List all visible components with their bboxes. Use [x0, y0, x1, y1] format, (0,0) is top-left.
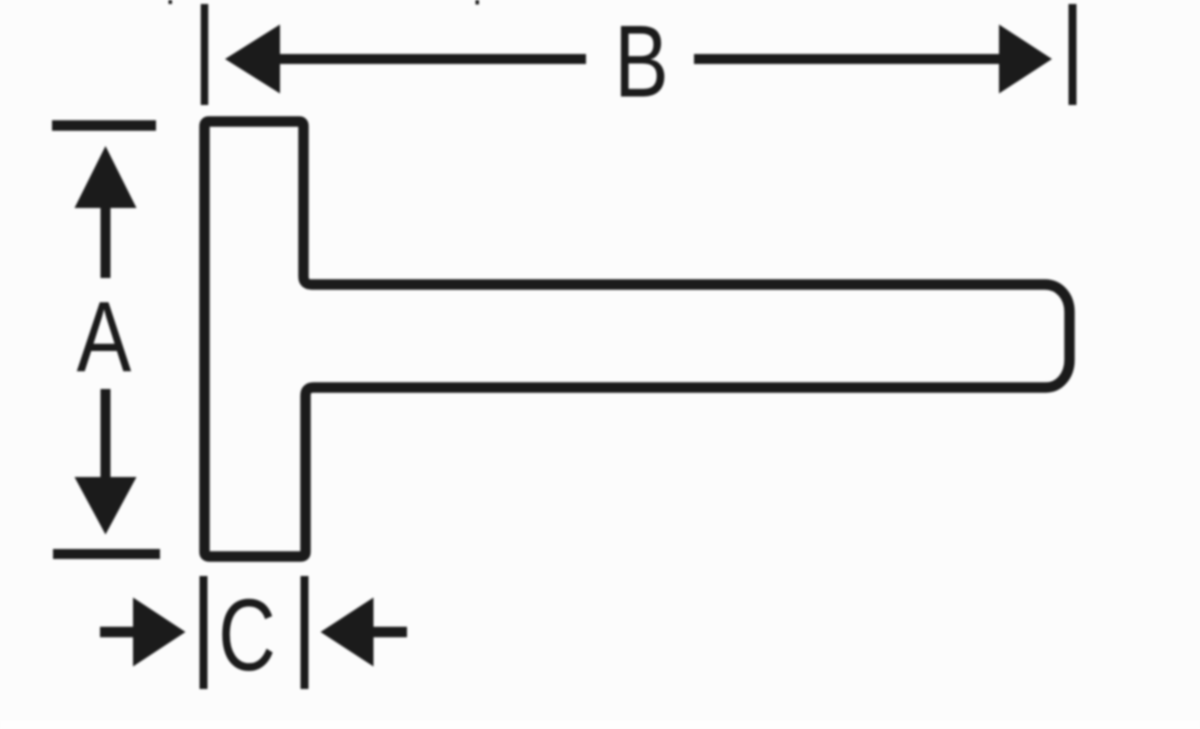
dimension A: up arrowhead: [75, 146, 137, 208]
dimension C: right shaft: [371, 627, 407, 638]
dimension C: right extension line: [301, 576, 309, 689]
dimension B: right arrowhead: [999, 25, 1052, 94]
bottom lighter strip: [0, 720, 1200, 729]
dimension A: lower shaft: [101, 389, 111, 480]
cropped text remnant mark 1: [169, 0, 173, 4]
dimension B: left shaft: [277, 54, 586, 64]
dimension B: right shaft: [694, 54, 1002, 64]
svg-text:A: A: [77, 281, 132, 393]
dimension A: top tick: [52, 120, 156, 131]
dimension C: left extension line: [200, 576, 208, 689]
svg-text:B: B: [614, 4, 668, 119]
dimension C: right arrowhead (pointing left): [321, 598, 374, 667]
dimension B: left extension line: [201, 4, 209, 105]
svg-text:C: C: [218, 579, 275, 693]
dimension C: left arrowhead (pointing right): [133, 598, 186, 667]
cropped text remnant mark 2: [476, 0, 480, 5]
dimension B: right extension line: [1069, 4, 1077, 105]
dimension B: left arrowhead: [225, 25, 280, 94]
tool outline (T-shaped body: head + shaft): [205, 122, 1070, 557]
dimension A: bottom tick: [53, 549, 160, 559]
dimension C: left shaft: [100, 627, 135, 638]
dimension A: upper shaft: [101, 205, 111, 278]
dimension A: down arrowhead: [75, 477, 137, 535]
